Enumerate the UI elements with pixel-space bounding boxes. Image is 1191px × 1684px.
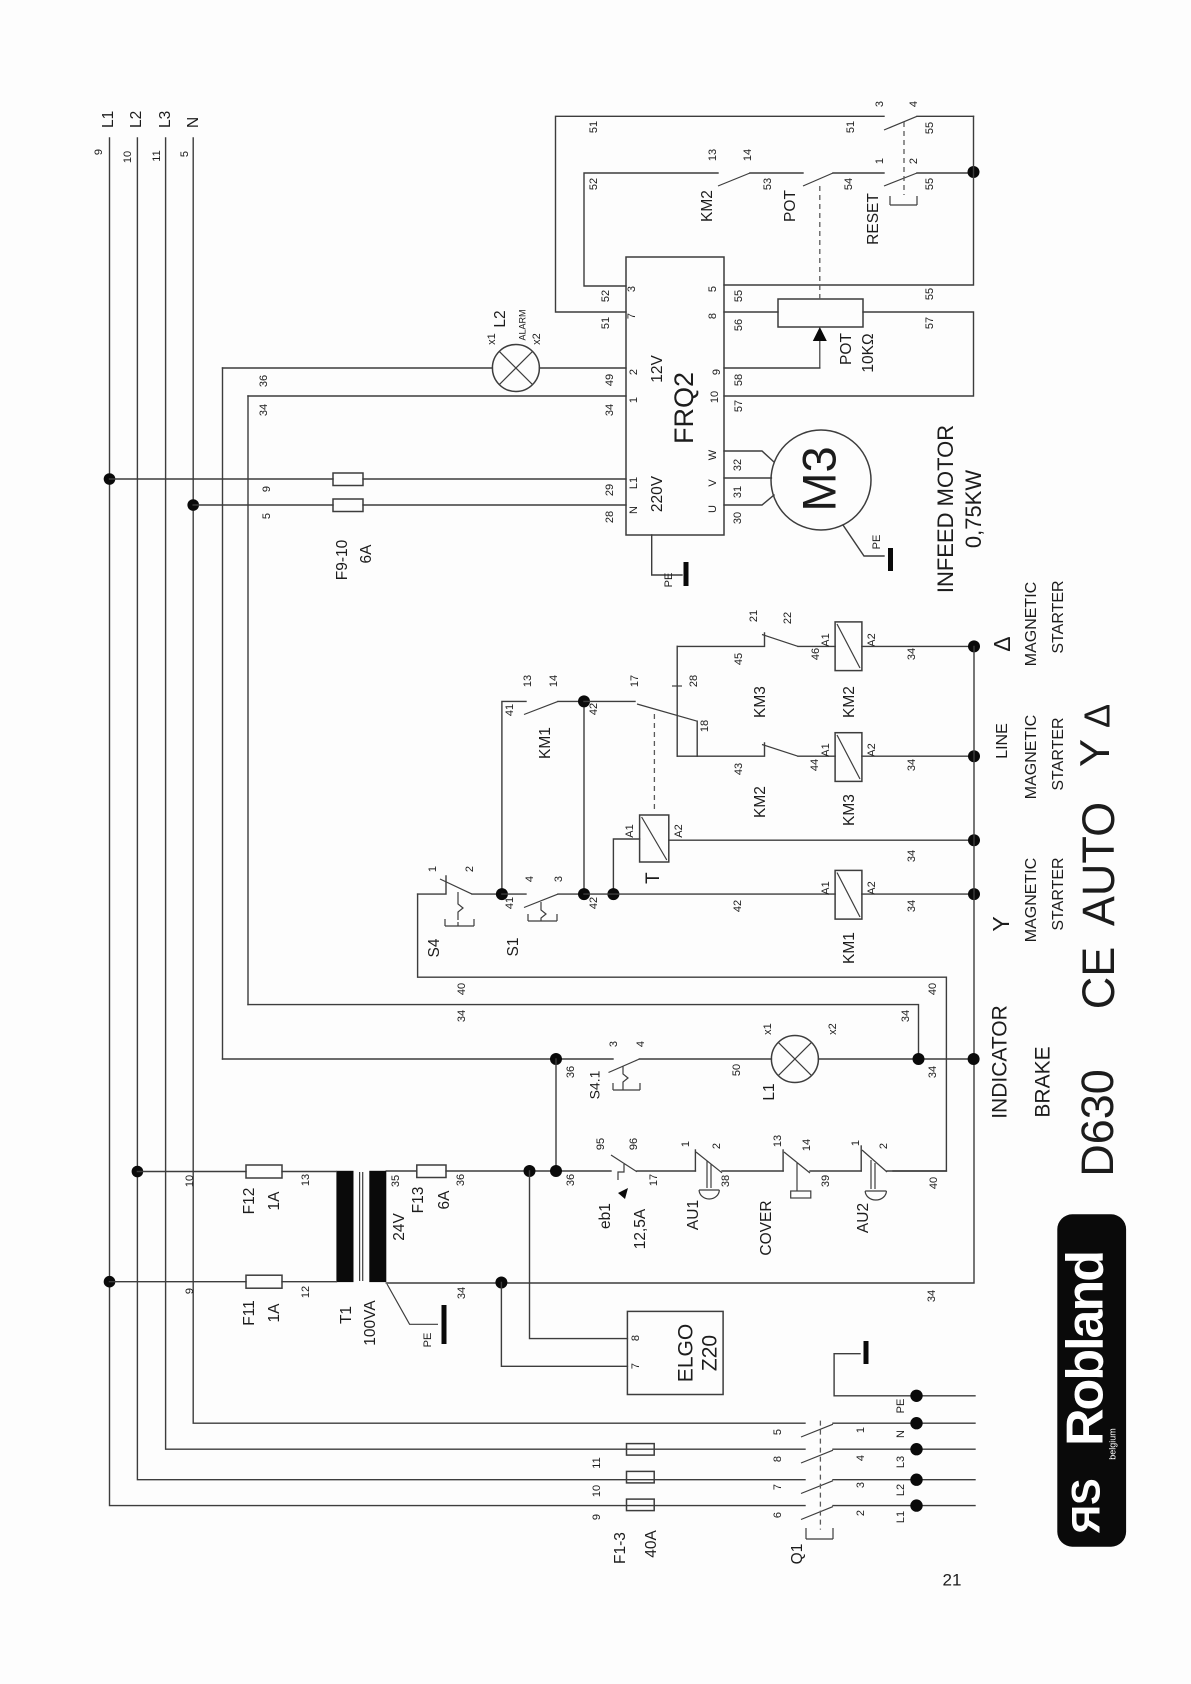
timer T A1 wire bbox=[613, 839, 639, 894]
switch Q1 blade L3 bbox=[801, 1450, 833, 1463]
wire 56 pin8 to POT bbox=[724, 311, 778, 313]
wire 58 pin9 to wiper bbox=[724, 367, 820, 369]
svg-text:34: 34 bbox=[604, 404, 616, 416]
svg-text:10: 10 bbox=[709, 391, 721, 403]
svg-text:18: 18 bbox=[699, 720, 711, 732]
svg-text:2: 2 bbox=[878, 1143, 890, 1149]
potentiometer POT 10K body bbox=[778, 299, 863, 327]
svg-text:2: 2 bbox=[855, 1510, 867, 1516]
svg-text:A2: A2 bbox=[866, 633, 878, 646]
svg-text:34: 34 bbox=[906, 850, 918, 862]
svg-text:BRAKE: BRAKE bbox=[1032, 1046, 1055, 1117]
potentiometer dashed link from POT switch bbox=[819, 186, 821, 299]
main rung to KM1 coil bbox=[584, 893, 835, 895]
svg-text:A1: A1 bbox=[820, 881, 832, 894]
svg-text:40: 40 bbox=[456, 983, 468, 995]
lamp row wire 36-50-34 bbox=[223, 1058, 974, 1060]
svg-text:12V: 12V bbox=[649, 355, 666, 383]
fuse F10 bbox=[333, 499, 363, 512]
svg-text:9: 9 bbox=[184, 1288, 196, 1294]
svg-text:x1: x1 bbox=[762, 1023, 774, 1035]
switch S4.1 NO blade bbox=[609, 1059, 640, 1073]
wire 34 long vertical bbox=[247, 396, 249, 1005]
coil KM2 bbox=[835, 622, 862, 671]
svg-text:T1: T1 bbox=[338, 1306, 355, 1324]
node junction S4.1 branch bbox=[550, 1053, 562, 1065]
svg-text:F13: F13 bbox=[410, 1187, 427, 1214]
switch POT contact 53-54 blade bbox=[803, 173, 833, 186]
svg-text:1: 1 bbox=[850, 1140, 862, 1146]
svg-text:INFEED MOTOR: INFEED MOTOR bbox=[933, 425, 958, 593]
svg-text:34: 34 bbox=[927, 1066, 939, 1078]
svg-text:RESET: RESET bbox=[865, 193, 882, 245]
svg-text:KM2: KM2 bbox=[752, 786, 769, 818]
svg-text:belgium: belgium bbox=[1107, 1428, 1117, 1460]
switch RESET NC contact 1-2 blade bbox=[884, 173, 917, 186]
svg-text:43: 43 bbox=[733, 763, 745, 775]
svg-text:KM3: KM3 bbox=[841, 794, 858, 826]
ground main PE bar bbox=[864, 1341, 869, 1364]
svg-text:A1: A1 bbox=[624, 824, 636, 837]
svg-text:2: 2 bbox=[908, 158, 920, 164]
svg-text:PE: PE bbox=[895, 1399, 907, 1414]
svg-text:ЯS: ЯS bbox=[1065, 1478, 1109, 1533]
svg-text:8: 8 bbox=[772, 1456, 784, 1462]
switch Q1 blade N bbox=[801, 1424, 833, 1437]
svg-text:9: 9 bbox=[93, 149, 105, 155]
wire 52 branch bbox=[584, 173, 974, 286]
fuse F12 bbox=[246, 1165, 282, 1178]
contact KM3 NC 21-22 for KM2 coil bbox=[677, 633, 835, 646]
svg-text:10KΩ: 10KΩ bbox=[860, 333, 877, 372]
svg-text:56: 56 bbox=[733, 319, 745, 331]
svg-text:ALARM: ALARM bbox=[517, 309, 527, 340]
svg-text:MAGNETIC: MAGNETIC bbox=[1023, 858, 1040, 942]
svg-text:36: 36 bbox=[455, 1174, 467, 1186]
svg-text:1: 1 bbox=[680, 1141, 692, 1147]
svg-text:POT: POT bbox=[838, 333, 855, 365]
svg-text:S4.1: S4.1 bbox=[587, 1070, 603, 1099]
svg-text:KM1: KM1 bbox=[537, 727, 554, 759]
fuse F13 bbox=[417, 1165, 446, 1178]
svg-text:L3: L3 bbox=[157, 111, 174, 128]
svg-text:11: 11 bbox=[591, 1457, 603, 1468]
svg-text:12: 12 bbox=[300, 1286, 312, 1298]
svg-text:53: 53 bbox=[762, 178, 774, 190]
svg-text:6A: 6A bbox=[436, 1190, 453, 1210]
node junction ELGO 7 bbox=[495, 1277, 507, 1289]
svg-text:1: 1 bbox=[874, 158, 886, 164]
svg-text:4: 4 bbox=[635, 1041, 647, 1047]
svg-text:34: 34 bbox=[926, 1290, 938, 1302]
wire N neutral conductor bbox=[193, 138, 805, 1423]
svg-text:Δ: Δ bbox=[1077, 704, 1118, 728]
svg-text:N: N bbox=[628, 506, 640, 514]
svg-text:M3: M3 bbox=[792, 446, 845, 511]
wire right side of loop down to pin 5 bbox=[724, 116, 974, 285]
wire 5 to FRQ2 N bbox=[193, 504, 626, 506]
wire 41 KM1 holding branch bbox=[502, 701, 584, 894]
svg-text:10: 10 bbox=[122, 151, 134, 163]
svg-text:KM1: KM1 bbox=[841, 932, 858, 964]
svg-text:41: 41 bbox=[504, 704, 516, 716]
svg-text:CE: CE bbox=[1073, 947, 1124, 1010]
svg-text:50: 50 bbox=[731, 1064, 743, 1076]
svg-text:x1: x1 bbox=[486, 333, 498, 345]
coil KM1 bbox=[835, 870, 862, 919]
node junction L1 to wire 9 transformer bbox=[104, 1276, 116, 1288]
node junction L1 to wire 9 bbox=[104, 473, 116, 485]
transformer T1 secondary winding bbox=[369, 1171, 386, 1282]
svg-text:0,75KW: 0,75KW bbox=[961, 470, 986, 548]
svg-text:14: 14 bbox=[742, 149, 754, 161]
svg-text:51: 51 bbox=[600, 317, 612, 329]
switch RESET NO contact 3-4 blade bbox=[884, 116, 917, 130]
lamp L1 indicator bbox=[771, 1036, 818, 1083]
svg-text:9: 9 bbox=[591, 1514, 603, 1520]
wire 9 to FRQ2 L1 bbox=[110, 478, 627, 480]
svg-text:3: 3 bbox=[874, 101, 886, 107]
svg-text:U: U bbox=[707, 505, 719, 513]
svg-text:57: 57 bbox=[924, 317, 936, 329]
svg-text:51: 51 bbox=[588, 121, 600, 133]
wire 36 vertical from lamp row bbox=[555, 1059, 557, 1171]
bus 34 vertical bbox=[386, 646, 974, 1283]
svg-text:35: 35 bbox=[390, 1175, 402, 1187]
brake unit ELGO Z20 box bbox=[627, 1311, 723, 1394]
svg-text:L3: L3 bbox=[895, 1456, 907, 1468]
svg-text:5: 5 bbox=[772, 1429, 784, 1435]
node junction 34 lamp bbox=[913, 1053, 925, 1065]
switch Q1 handle bbox=[806, 1528, 833, 1539]
svg-text:55: 55 bbox=[924, 178, 936, 190]
svg-text:L2: L2 bbox=[895, 1484, 907, 1496]
svg-text:STARTER: STARTER bbox=[1050, 857, 1067, 930]
svg-text:57: 57 bbox=[733, 400, 745, 412]
svg-text:6A: 6A bbox=[358, 544, 375, 564]
svg-text:55: 55 bbox=[733, 290, 745, 302]
switch Q1 dashed link bbox=[819, 1421, 821, 1530]
svg-text:x2: x2 bbox=[827, 1023, 839, 1035]
svg-text:1: 1 bbox=[855, 1427, 867, 1433]
timer T A2 wire to bus bbox=[669, 839, 974, 841]
svg-text:A2: A2 bbox=[866, 743, 878, 756]
svg-text:14: 14 bbox=[801, 1139, 813, 1151]
svg-text:S4: S4 bbox=[426, 938, 443, 957]
svg-text:42: 42 bbox=[588, 703, 600, 715]
svg-text:34: 34 bbox=[900, 1010, 912, 1022]
svg-text:12,5A: 12,5A bbox=[632, 1208, 649, 1249]
svg-text:L1: L1 bbox=[895, 1511, 907, 1523]
svg-text:8: 8 bbox=[707, 313, 719, 319]
svg-text:STARTER: STARTER bbox=[1050, 717, 1067, 790]
motor PE lead bbox=[843, 525, 884, 556]
svg-text:49: 49 bbox=[604, 374, 616, 386]
svg-text:22: 22 bbox=[782, 612, 794, 624]
svg-text:Robland: Robland bbox=[1057, 1252, 1115, 1446]
wire 34 to pin1 bbox=[248, 395, 626, 397]
wire 30 U phase to motor bbox=[724, 495, 774, 505]
svg-text:KM3: KM3 bbox=[752, 686, 769, 718]
svg-text:52: 52 bbox=[600, 290, 612, 302]
svg-text:S1: S1 bbox=[505, 938, 522, 957]
svg-text:42: 42 bbox=[732, 900, 744, 912]
ground PE of transformer bbox=[442, 1305, 447, 1344]
coil KM3 bbox=[835, 733, 862, 782]
svg-text:11: 11 bbox=[151, 150, 163, 161]
svg-text:10: 10 bbox=[184, 1175, 196, 1187]
node junctions on main rung bbox=[578, 888, 590, 900]
svg-text:STARTER: STARTER bbox=[1050, 580, 1067, 653]
svg-text:9: 9 bbox=[261, 486, 273, 492]
svg-text:Y: Y bbox=[1071, 739, 1118, 767]
svg-text:F1-3: F1-3 bbox=[612, 1532, 629, 1564]
wire L2 phase conductor bbox=[137, 138, 805, 1480]
contact KM2 aux 13-14 blade bbox=[718, 173, 750, 186]
svg-text:7: 7 bbox=[630, 1363, 642, 1369]
svg-text:1: 1 bbox=[628, 397, 640, 403]
switch S4 actuator bbox=[445, 892, 474, 926]
node junction bus lamp bbox=[968, 1053, 980, 1065]
switch S1 NO start bbox=[502, 893, 584, 895]
frequency drive FRQ2 box bbox=[626, 257, 724, 535]
svg-text:45: 45 bbox=[733, 653, 745, 665]
svg-text:58: 58 bbox=[733, 374, 745, 386]
svg-text:PE: PE bbox=[422, 1333, 434, 1348]
svg-text:2: 2 bbox=[464, 866, 476, 872]
switch Q1 blade L1 bbox=[801, 1507, 833, 1520]
svg-text:28: 28 bbox=[688, 675, 700, 687]
svg-text:L1: L1 bbox=[628, 477, 640, 489]
node junction S4-S1 bbox=[496, 888, 508, 900]
wires after Q1 bbox=[833, 1423, 975, 1505]
contact KM2 NC for KM3 coil bbox=[677, 743, 835, 756]
node junction N to wire 5 bbox=[187, 499, 199, 511]
svg-text:13: 13 bbox=[522, 675, 534, 687]
svg-text:14: 14 bbox=[548, 675, 560, 687]
svg-text:MAGNETIC: MAGNETIC bbox=[1023, 582, 1040, 666]
svg-text:38: 38 bbox=[720, 1175, 732, 1187]
svg-text:40: 40 bbox=[927, 983, 939, 995]
svg-text:34: 34 bbox=[906, 900, 918, 912]
svg-text:95: 95 bbox=[595, 1138, 607, 1150]
svg-text:2: 2 bbox=[628, 369, 640, 375]
svg-text:AU2: AU2 bbox=[855, 1203, 872, 1233]
svg-text:17: 17 bbox=[629, 675, 641, 687]
node junction L2 to wire 10 bbox=[132, 1166, 144, 1178]
svg-text:34: 34 bbox=[906, 648, 918, 660]
ELGO pin 8 wire bbox=[530, 1171, 628, 1339]
svg-text:54: 54 bbox=[843, 178, 855, 190]
svg-text:MAGNETIC: MAGNETIC bbox=[1023, 715, 1040, 799]
timer T coil box bbox=[640, 815, 669, 862]
svg-text:39: 39 bbox=[820, 1175, 832, 1187]
wire 51 top loop bbox=[556, 116, 974, 312]
button AU2 NC mushroom bbox=[860, 1146, 862, 1171]
wire 42 vertical bbox=[583, 701, 585, 894]
svg-text:Z20: Z20 bbox=[699, 1335, 722, 1371]
wire L3 phase conductor bbox=[166, 138, 805, 1449]
svg-text:4: 4 bbox=[524, 876, 536, 882]
svg-text:FRQ2: FRQ2 bbox=[669, 372, 699, 444]
lamp L2 alarm bbox=[492, 345, 539, 392]
svg-text:44: 44 bbox=[809, 759, 821, 771]
svg-text:L2: L2 bbox=[128, 111, 145, 128]
svg-text:17: 17 bbox=[648, 1174, 660, 1186]
svg-text:Δ: Δ bbox=[989, 636, 1015, 651]
svg-text:4: 4 bbox=[908, 101, 920, 107]
logo Robland bbox=[1057, 1214, 1126, 1546]
wire 9 primary bottom bbox=[110, 1281, 337, 1283]
switch S4 NC stop bbox=[418, 876, 502, 894]
svg-text:55: 55 bbox=[924, 122, 936, 134]
svg-text:N: N bbox=[185, 117, 202, 128]
svg-text:W: W bbox=[707, 449, 719, 460]
contact KM3 aux 17-18 blade bbox=[637, 704, 697, 721]
fuse F3 bbox=[627, 1499, 655, 1511]
ground PE of FRQ2 bbox=[684, 562, 689, 586]
svg-text:N: N bbox=[895, 1430, 907, 1438]
svg-text:2: 2 bbox=[711, 1143, 723, 1149]
svg-text:28: 28 bbox=[604, 511, 616, 523]
wire 10 primary top bbox=[137, 1171, 336, 1173]
switch S1 actuator bbox=[528, 902, 557, 921]
svg-text:A1: A1 bbox=[820, 633, 832, 646]
svg-text:30: 30 bbox=[732, 512, 744, 524]
svg-text:32: 32 bbox=[732, 459, 744, 471]
switch S4.1 actuator bbox=[613, 1066, 640, 1090]
svg-text:21: 21 bbox=[748, 610, 760, 622]
svg-text:COVER: COVER bbox=[758, 1200, 775, 1255]
svg-text:L1: L1 bbox=[761, 1083, 778, 1100]
svg-text:51: 51 bbox=[845, 121, 857, 133]
svg-text:13: 13 bbox=[300, 1174, 312, 1186]
svg-text:F9-10: F9-10 bbox=[334, 539, 351, 580]
node junctions on wire 36 bbox=[524, 1165, 536, 1177]
svg-text:L2: L2 bbox=[492, 310, 509, 327]
svg-text:A1: A1 bbox=[820, 743, 832, 756]
svg-text:eb1: eb1 bbox=[597, 1203, 614, 1229]
svg-text:40A: 40A bbox=[643, 1530, 660, 1558]
svg-text:D630: D630 bbox=[1072, 1069, 1123, 1177]
svg-text:34: 34 bbox=[258, 404, 270, 416]
ELGO pin 7 wire bbox=[501, 1283, 627, 1367]
svg-text:29: 29 bbox=[604, 484, 616, 496]
svg-text:4: 4 bbox=[855, 1455, 867, 1461]
svg-text:6: 6 bbox=[772, 1512, 784, 1518]
svg-text:ELGO: ELGO bbox=[675, 1324, 698, 1382]
node junction loop right bbox=[968, 166, 980, 178]
svg-text:AUTO: AUTO bbox=[1073, 802, 1124, 926]
svg-text:36: 36 bbox=[565, 1174, 577, 1186]
wire 31 V phase to motor bbox=[724, 477, 771, 479]
transformer T1 core bbox=[360, 1172, 363, 1281]
svg-text:46: 46 bbox=[810, 648, 822, 660]
svg-text:KM2: KM2 bbox=[841, 686, 858, 718]
svg-text:21: 21 bbox=[943, 1570, 962, 1589]
timer T dashed link bbox=[653, 714, 655, 813]
contact KM1 aux 13-14 blade bbox=[524, 701, 558, 714]
fuse F11 bbox=[246, 1275, 282, 1288]
svg-text:24V: 24V bbox=[391, 1213, 408, 1241]
fuse F2 bbox=[627, 1471, 655, 1483]
svg-text:A2: A2 bbox=[673, 824, 685, 837]
svg-text:42: 42 bbox=[588, 897, 600, 909]
transformer T1 primary winding bbox=[336, 1171, 353, 1282]
RESET mechanical link dashed bbox=[903, 122, 905, 195]
wire 40 S4 feed bbox=[418, 894, 947, 1171]
transformer PE lead bbox=[387, 1284, 438, 1324]
svg-text:KM2: KM2 bbox=[699, 190, 716, 222]
svg-text:F12: F12 bbox=[241, 1188, 258, 1215]
svg-text:13: 13 bbox=[707, 149, 719, 161]
svg-text:Q1: Q1 bbox=[789, 1544, 806, 1565]
svg-text:POT: POT bbox=[782, 190, 799, 222]
svg-text:LINE: LINE bbox=[994, 723, 1011, 759]
svg-text:1: 1 bbox=[427, 866, 439, 872]
ground PE of motor bbox=[888, 548, 893, 571]
switch COVER NO bbox=[782, 1150, 784, 1171]
svg-text:7: 7 bbox=[772, 1484, 784, 1490]
svg-text:220V: 220V bbox=[649, 475, 666, 512]
wire L1 phase conductor bbox=[110, 138, 806, 1506]
wire 32 W phase to motor bbox=[724, 451, 774, 462]
svg-text:PE: PE bbox=[871, 535, 883, 550]
FRQ2 PE stem bbox=[652, 535, 682, 575]
RESET latch bracket bbox=[890, 196, 917, 205]
svg-text:3: 3 bbox=[608, 1041, 620, 1047]
svg-text:1A: 1A bbox=[266, 1191, 283, 1211]
svg-text:34: 34 bbox=[456, 1010, 468, 1022]
wire 57 POT right to pin 10 bbox=[724, 312, 974, 396]
svg-text:31: 31 bbox=[732, 486, 744, 498]
svg-text:PE: PE bbox=[663, 573, 675, 588]
svg-text:5: 5 bbox=[179, 151, 191, 157]
svg-text:x2: x2 bbox=[531, 333, 543, 345]
svg-text:13: 13 bbox=[772, 1135, 784, 1147]
svg-text:L1: L1 bbox=[100, 111, 117, 128]
svg-text:F11: F11 bbox=[241, 1300, 258, 1326]
svg-text:52: 52 bbox=[588, 178, 600, 190]
svg-text:A2: A2 bbox=[866, 881, 878, 894]
svg-text:96: 96 bbox=[628, 1138, 640, 1150]
svg-text:7: 7 bbox=[626, 313, 638, 319]
svg-text:100VA: 100VA bbox=[362, 1300, 379, 1346]
PE row with ground bbox=[834, 1354, 975, 1396]
svg-text:INDICATOR: INDICATOR bbox=[989, 1005, 1012, 1119]
wire 36 long vertical bbox=[222, 368, 224, 1059]
svg-text:55: 55 bbox=[924, 288, 936, 300]
terminal dots bbox=[910, 1390, 922, 1402]
svg-text:1A: 1A bbox=[266, 1303, 283, 1323]
svg-text:36: 36 bbox=[565, 1066, 577, 1078]
svg-text:T: T bbox=[643, 872, 664, 884]
svg-text:41: 41 bbox=[504, 897, 516, 909]
potentiometer wiper arrow bbox=[819, 341, 821, 368]
svg-text:8: 8 bbox=[630, 1335, 642, 1341]
svg-text:3: 3 bbox=[553, 876, 565, 882]
svg-text:34: 34 bbox=[456, 1287, 468, 1299]
svg-text:9: 9 bbox=[711, 369, 723, 375]
svg-text:AU1: AU1 bbox=[685, 1200, 702, 1230]
switch Q1 blade L2 bbox=[801, 1481, 833, 1494]
svg-text:10: 10 bbox=[591, 1485, 603, 1497]
svg-text:Y: Y bbox=[988, 916, 1014, 931]
svg-text:V: V bbox=[707, 479, 719, 487]
overload eb1 NC contact bbox=[611, 1155, 637, 1172]
svg-text:3: 3 bbox=[626, 286, 638, 292]
svg-text:34: 34 bbox=[906, 759, 918, 771]
